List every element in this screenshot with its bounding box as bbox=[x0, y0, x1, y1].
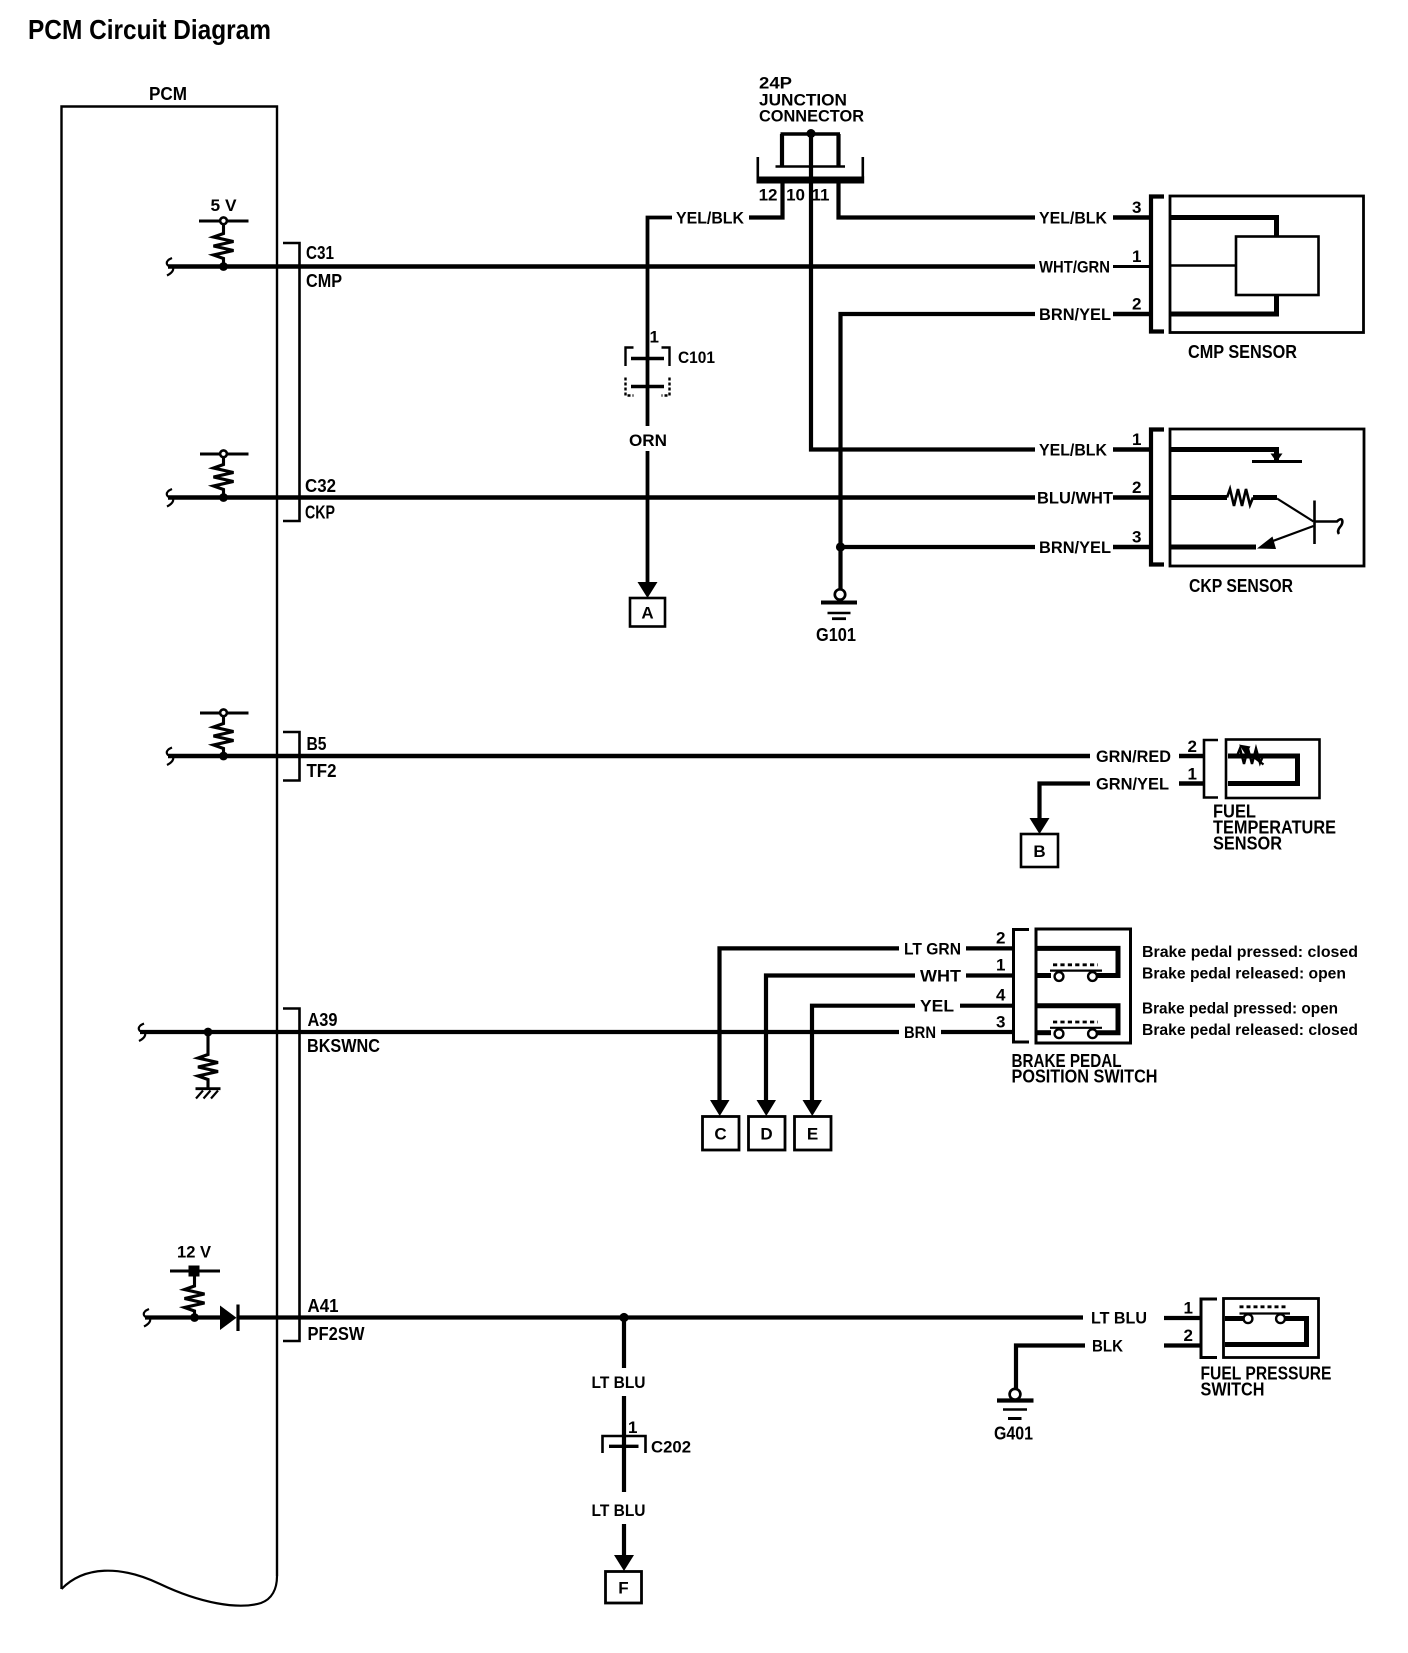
fuel pressure switch box bbox=[1224, 1299, 1319, 1358]
svg-text:YEL/BLK: YEL/BLK bbox=[1039, 441, 1108, 460]
svg-text:CKP: CKP bbox=[305, 503, 335, 523]
wire C31 / WHT-GRN row bbox=[168, 264, 1035, 269]
svg-text:B5: B5 bbox=[307, 734, 327, 754]
svg-text:A41: A41 bbox=[308, 1296, 339, 1316]
wire GRN/YEL branch down to B bbox=[1040, 784, 1091, 820]
svg-text:BRN/YEL: BRN/YEL bbox=[1039, 305, 1111, 324]
brake switch connector bracket bbox=[1014, 930, 1030, 1043]
5V rail bar with terminal circle (B5 pull-up) bbox=[200, 709, 249, 716]
svg-text:1: 1 bbox=[650, 328, 659, 347]
wire stub to fuel temp pin 2 bbox=[1179, 754, 1203, 759]
wire LT BLU down branch upper bbox=[622, 1318, 626, 1369]
arrowhead into E bbox=[803, 1100, 823, 1116]
svg-text:PF2SW: PF2SW bbox=[308, 1324, 365, 1344]
wire stub to brake pin 2 bbox=[966, 946, 1013, 950]
svg-text:LT GRN: LT GRN bbox=[904, 939, 961, 958]
destination box B bbox=[1021, 834, 1058, 867]
wire stub to CMP pin 1 bbox=[1113, 265, 1149, 268]
resistor pull-up at C31 bbox=[214, 224, 234, 267]
destination box F bbox=[606, 1572, 642, 1604]
CKP inner lead pin1 with core bar bbox=[1171, 450, 1277, 461]
CMP inner lead pin1 bbox=[1171, 264, 1236, 267]
wire LT GRN branch (brake switch pin 2) bbox=[720, 948, 900, 1100]
fuel pressure switch contacts bbox=[1240, 1305, 1288, 1308]
connector A bracket (pins A39,A41) bbox=[283, 1009, 300, 1342]
junction dot on C31 wire bbox=[219, 262, 228, 271]
wire junction pin 11 vertical (to CMP pin 3) bbox=[839, 184, 1036, 218]
arrowhead into F bbox=[614, 1555, 634, 1571]
wire A41 / LT BLU row bbox=[238, 1315, 1083, 1319]
svg-text:YEL/BLK: YEL/BLK bbox=[676, 209, 745, 228]
brake pedal position switch box bbox=[1036, 929, 1131, 1043]
wire ORN lower segment to connector A bbox=[646, 451, 650, 583]
svg-text:4: 4 bbox=[996, 986, 1006, 1005]
arrowhead into C bbox=[710, 1100, 730, 1116]
svg-text:11: 11 bbox=[812, 186, 830, 205]
svg-text:ORN: ORN bbox=[629, 431, 667, 450]
svg-text:PCM Circuit Diagram: PCM Circuit Diagram bbox=[28, 14, 271, 45]
destination box A bbox=[630, 598, 665, 627]
ground G401 symbol bbox=[997, 1389, 1034, 1419]
brake switch element 2 (pins 4-3) bbox=[1037, 1006, 1118, 1033]
svg-text:CMP: CMP bbox=[306, 271, 342, 291]
wire stub to fuel pressure pin 1 bbox=[1164, 1316, 1200, 1320]
thermistor zigzag and arrow bbox=[1237, 749, 1263, 765]
junction connector symbol body bbox=[758, 134, 863, 177]
svg-text:SWITCH: SWITCH bbox=[1201, 1380, 1265, 1400]
PCM module box (open bottom with torn wavy edge) bbox=[62, 107, 278, 1606]
svg-text:F: F bbox=[618, 1579, 628, 1598]
junction dot BRN/YEL ground net bbox=[836, 542, 845, 551]
connector C202 symbol bbox=[603, 1436, 646, 1453]
svg-text:CONNECTOR: CONNECTOR bbox=[759, 108, 864, 126]
svg-text:3: 3 bbox=[996, 1013, 1005, 1032]
svg-text:TF2: TF2 bbox=[307, 761, 337, 781]
wire stub to brake pin 1 bbox=[966, 973, 1013, 977]
svg-text:2: 2 bbox=[1132, 295, 1141, 314]
svg-text:12 V: 12 V bbox=[177, 1243, 212, 1262]
wire WHT branch (brake switch pin 1) bbox=[766, 976, 915, 1101]
svg-text:2: 2 bbox=[1132, 478, 1141, 497]
svg-text:24P: 24P bbox=[759, 75, 792, 93]
svg-text:1: 1 bbox=[1132, 430, 1141, 449]
CKP sensor connector bracket bbox=[1151, 430, 1164, 565]
wire stub to brake pin 3 bbox=[941, 1030, 1013, 1034]
svg-text:2: 2 bbox=[996, 928, 1005, 947]
fuel temp inner loop bbox=[1228, 756, 1298, 784]
resistor pull-up at A41 bbox=[185, 1277, 205, 1318]
svg-text:SENSOR: SENSOR bbox=[1213, 834, 1282, 854]
CKP inner lead pin3 bbox=[1171, 545, 1256, 550]
wire between C101 halves bbox=[646, 359, 650, 387]
wire stub hook A41 bbox=[144, 1309, 150, 1327]
diode D1 bbox=[220, 1306, 237, 1331]
junction dot to C202 branch bbox=[619, 1313, 628, 1322]
fuel pressure connector bracket bbox=[1201, 1299, 1217, 1358]
wire stub to fuel pressure pin 2 bbox=[1164, 1343, 1200, 1347]
wire stub hook A39 bbox=[139, 1024, 145, 1042]
arrowhead into D bbox=[757, 1100, 777, 1116]
svg-text:CMP SENSOR: CMP SENSOR bbox=[1188, 342, 1297, 362]
svg-text:1: 1 bbox=[1132, 247, 1141, 266]
svg-text:1: 1 bbox=[1184, 1299, 1193, 1318]
svg-text:BRN: BRN bbox=[904, 1023, 936, 1042]
svg-text:Brake pedal pressed: closed: Brake pedal pressed: closed bbox=[1142, 944, 1358, 961]
svg-text:3: 3 bbox=[1132, 198, 1141, 217]
wire YEL/BLK left segment to C101 bbox=[648, 218, 673, 359]
svg-text:WHT: WHT bbox=[920, 967, 962, 986]
wire stub hook C31 (continues inside PCM) bbox=[167, 258, 173, 276]
svg-text:G101: G101 bbox=[816, 625, 856, 645]
svg-text:C202: C202 bbox=[651, 1438, 691, 1457]
svg-text:5 V: 5 V bbox=[211, 196, 238, 215]
wire C32 / BLU-WHT row bbox=[168, 495, 1035, 500]
svg-text:POSITION SWITCH: POSITION SWITCH bbox=[1012, 1067, 1158, 1087]
junction dot on A41 wire bbox=[190, 1313, 199, 1322]
wire LT BLU below C202 bbox=[622, 1446, 626, 1492]
ground G101 symbol bbox=[821, 589, 857, 618]
svg-text:2: 2 bbox=[1188, 737, 1197, 756]
CKP sensor box bbox=[1170, 429, 1364, 566]
wire B5 / GRN-RED row bbox=[168, 754, 1090, 759]
connector C bracket (pins C31,C32) bbox=[283, 243, 300, 521]
wire into C202 bbox=[622, 1396, 626, 1445]
wire stub to CMP pin 3 bbox=[1113, 215, 1149, 220]
svg-text:BRN/YEL: BRN/YEL bbox=[1039, 538, 1111, 557]
svg-text:LT BLU: LT BLU bbox=[592, 1501, 646, 1520]
svg-text:1: 1 bbox=[996, 956, 1005, 975]
CMP inner lead pin3 bbox=[1171, 218, 1277, 238]
svg-text:PCM: PCM bbox=[149, 84, 187, 104]
svg-text:Brake pedal pressed: open: Brake pedal pressed: open bbox=[1142, 1001, 1338, 1018]
destination box C bbox=[703, 1117, 740, 1151]
resistor pull-up at B5 bbox=[214, 716, 234, 756]
svg-text:BLU/WHT: BLU/WHT bbox=[1037, 489, 1114, 508]
svg-text:12: 12 bbox=[759, 186, 778, 205]
svg-text:1: 1 bbox=[1188, 765, 1197, 784]
wire YEL branch (brake switch pin 4) bbox=[812, 1006, 915, 1100]
CMP sensor element box bbox=[1236, 237, 1319, 296]
svg-text:C101: C101 bbox=[678, 348, 715, 367]
wire stub to CMP pin 2 bbox=[1113, 312, 1149, 317]
svg-text:3: 3 bbox=[1132, 528, 1141, 547]
wire junction pin 10 vertical (to CKP pin 1 YEL/BLK) bbox=[811, 134, 1035, 450]
junction connector top node dot bbox=[807, 129, 816, 138]
svg-text:10: 10 bbox=[786, 186, 805, 205]
svg-text:LT BLU: LT BLU bbox=[1091, 1309, 1147, 1328]
junction connector housing bottom bar bbox=[757, 177, 865, 184]
svg-text:BLK: BLK bbox=[1092, 1337, 1124, 1356]
chassis ground at A39 pull-down bbox=[196, 1089, 221, 1099]
wire A41 left segment bbox=[145, 1315, 220, 1319]
svg-text:GRN/RED: GRN/RED bbox=[1096, 747, 1171, 766]
arrowhead into A bbox=[638, 582, 658, 598]
svg-text:YEL: YEL bbox=[920, 997, 954, 1016]
svg-text:G401: G401 bbox=[994, 1424, 1033, 1444]
wire stub to CKP pin 2 bbox=[1113, 495, 1149, 500]
svg-text:Brake pedal released: open: Brake pedal released: open bbox=[1142, 966, 1346, 983]
destination box D bbox=[749, 1117, 786, 1151]
CKP inner lead pin2 with pickup coil bbox=[1171, 495, 1227, 500]
fuel temperature sensor box bbox=[1226, 740, 1320, 799]
svg-text:C31: C31 bbox=[306, 243, 334, 263]
resistor pull-up at C32 bbox=[214, 457, 234, 498]
svg-text:YEL/BLK: YEL/BLK bbox=[1039, 209, 1108, 228]
svg-text:1: 1 bbox=[628, 1418, 637, 1437]
svg-text:CKP SENSOR: CKP SENSOR bbox=[1189, 576, 1293, 596]
wire ORN upper segment bbox=[646, 387, 650, 427]
CKP magnet pole bar and tip bbox=[1277, 499, 1314, 522]
svg-text:2: 2 bbox=[1184, 1326, 1193, 1345]
wire junction pin 12 vertical bbox=[749, 184, 783, 218]
wire BLK branch to G401 bbox=[1016, 1346, 1085, 1390]
svg-text:Brake pedal released: closed: Brake pedal released: closed bbox=[1142, 1022, 1358, 1039]
junction dot on C32 wire bbox=[219, 493, 228, 502]
svg-text:B: B bbox=[1033, 842, 1045, 861]
junction dot on A39 wire bbox=[204, 1028, 213, 1037]
wire to F bbox=[622, 1524, 626, 1556]
svg-text:D: D bbox=[760, 1125, 772, 1144]
brake switch element 1 (pins 2-1) bbox=[1037, 948, 1118, 975]
svg-text:C: C bbox=[714, 1125, 726, 1144]
connector C101 symbol bbox=[626, 348, 670, 396]
svg-text:A: A bbox=[641, 604, 653, 623]
arrowhead into B bbox=[1030, 818, 1050, 834]
svg-text:E: E bbox=[807, 1125, 818, 1144]
junction dot on B5 wire bbox=[219, 752, 228, 761]
resistor pull-down at A39 bbox=[198, 1032, 218, 1088]
wire stub to CKP pin 1 bbox=[1113, 447, 1149, 452]
destination box E bbox=[795, 1117, 832, 1151]
wire BRN/YEL (CKP pin 3) bbox=[841, 545, 1036, 549]
5V supply rail bar with terminal circle (C31) bbox=[199, 217, 249, 224]
5V rail bar with terminal circle (C32 pull-up) bbox=[200, 450, 249, 457]
CMP inner lead pin2 bbox=[1171, 294, 1277, 314]
fuel temp sensor connector bracket bbox=[1204, 740, 1218, 798]
svg-text:A39: A39 bbox=[308, 1010, 338, 1030]
connector B bracket (pin B5) bbox=[283, 732, 300, 781]
svg-text:GRN/YEL: GRN/YEL bbox=[1096, 775, 1169, 794]
wire stub to CKP pin 3 bbox=[1113, 545, 1149, 550]
CMP sensor box bbox=[1170, 196, 1364, 333]
12V rail bar with square terminal bbox=[170, 1270, 220, 1273]
wire A39 / BRN row bbox=[140, 1030, 899, 1034]
svg-text:WHT/GRN: WHT/GRN bbox=[1039, 258, 1110, 277]
wire stub hook C32 bbox=[167, 489, 173, 507]
wire stub to brake pin 4 bbox=[960, 1004, 1013, 1008]
CMP sensor connector bracket bbox=[1151, 197, 1164, 332]
svg-text:BKSWNC: BKSWNC bbox=[307, 1036, 380, 1056]
CKP arrow to pin3 lead bbox=[1266, 526, 1314, 544]
wire stub hook B5 bbox=[167, 748, 173, 766]
svg-text:LT BLU: LT BLU bbox=[592, 1373, 646, 1392]
wire BRN/YEL (CMP pin 2) down to ground net bbox=[841, 314, 1036, 589]
wire stub to fuel temp pin 1 bbox=[1179, 781, 1203, 786]
svg-text:C32: C32 bbox=[305, 476, 336, 496]
